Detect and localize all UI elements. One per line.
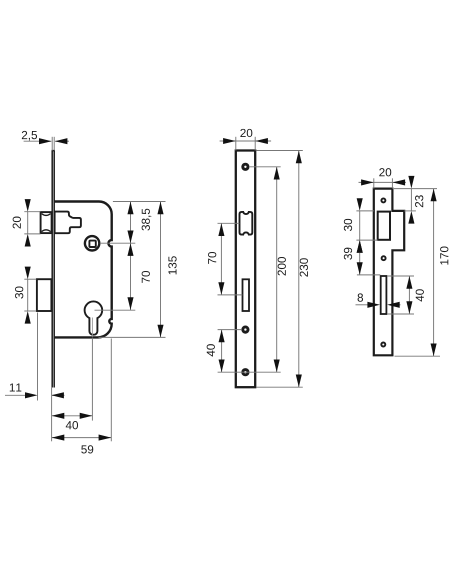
dimension 2,5 faceplate thickness (22, 131, 69, 151)
latch cutout (spool) (240, 212, 253, 235)
strike screw hole middle (382, 256, 386, 260)
strike screw hole top (381, 198, 385, 202)
dimension 38,5 top to follower (100, 202, 166, 244)
dimension 59 case depth (52, 339, 112, 454)
screw hole top (243, 164, 248, 169)
dimension 20 faceplate width (220, 129, 272, 151)
dimension 230 faceplate height (257, 151, 309, 388)
dimension 11 deadbolt throw (5, 313, 65, 401)
faceplate front outline (236, 151, 255, 388)
dimension 40 backset (52, 338, 93, 442)
faceplate (edge-on) (52, 151, 55, 388)
dimension 200 hole span (250, 167, 286, 372)
dimension 39 latch to slot (344, 240, 380, 275)
dimension 30 latch opening height (344, 198, 378, 253)
follower (spindle hub) (85, 236, 99, 250)
dimension 40 slot height (387, 276, 424, 314)
latch bolt body (stepped) (55, 212, 81, 234)
dimension 8 slot width (356, 293, 401, 307)
strike latch opening (378, 212, 390, 240)
latch bolt head (41, 212, 52, 233)
dimension 20 strike width (359, 168, 407, 188)
dimension 135 case height (99, 202, 177, 338)
dimension 23 top to latch (394, 176, 437, 224)
strike screw hole bottom (381, 343, 385, 347)
dimension 40 hole spacing (207, 330, 281, 373)
strike deadbolt slot (381, 276, 387, 314)
deadbolt cutout (243, 279, 250, 311)
strike plate outline with side tab (374, 189, 404, 356)
deadbolt head (37, 279, 52, 311)
lock case body (side view) (55, 202, 112, 338)
screw hole bottom (243, 370, 248, 375)
dimension 70 latch to deadbolt (208, 223, 242, 295)
screw hole middle-low (243, 327, 248, 332)
euro cylinder hole (85, 301, 103, 336)
dimension 70 follower to cylinder (95, 243, 150, 310)
dimension 20 latch height (13, 199, 41, 246)
dimension 30 deadbolt height (15, 267, 36, 324)
dimension 170 strike height (395, 189, 449, 357)
